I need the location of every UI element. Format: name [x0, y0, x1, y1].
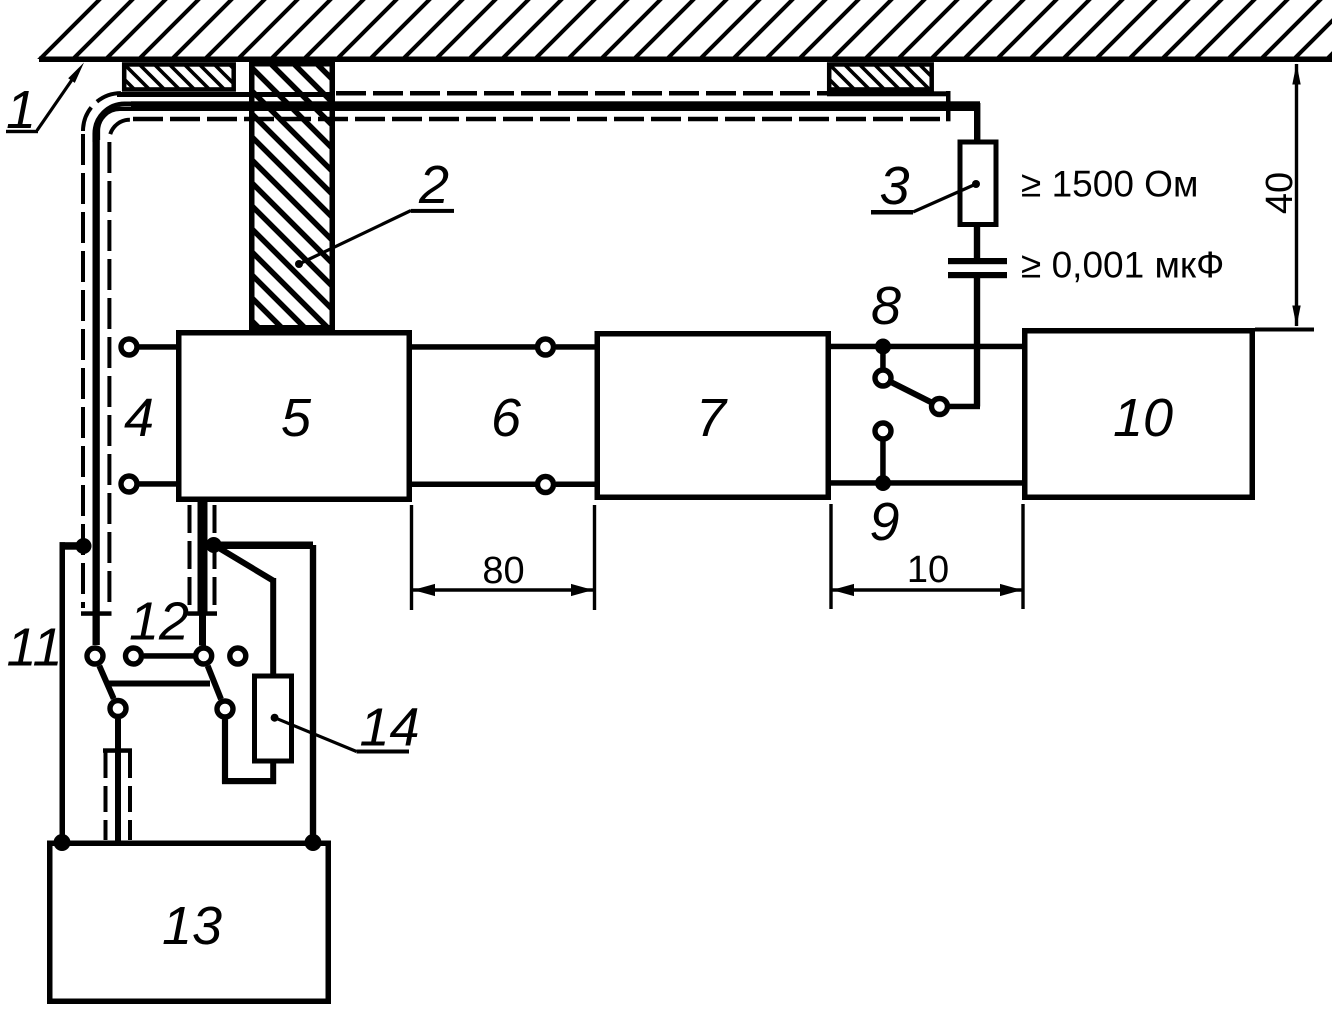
capacitor top plate	[948, 258, 1007, 264]
wire box5 to terminal lower	[411, 482, 536, 488]
svg-text:3: 3	[879, 156, 909, 216]
corner arc inner dashed sleeve	[109, 120, 130, 141]
box 13	[50, 843, 329, 1001]
svg-text:≥ 0,001 мкФ: ≥ 0,001 мкФ	[1021, 245, 1224, 286]
resistor 14	[255, 676, 292, 761]
sleeve right dashed vertical	[107, 142, 111, 602]
dimension 80 left arrow	[413, 584, 435, 596]
sleeve left dashed vertical	[81, 134, 85, 608]
sleeve below box5 left dashed	[188, 505, 192, 609]
sleeve top dashed line	[336, 91, 934, 96]
label 3	[871, 156, 913, 216]
diagonal wire to resistor 14	[214, 545, 273, 581]
corner arc inner wire	[98, 109, 138, 140]
svg-text:10: 10	[1113, 388, 1173, 448]
mounting block right	[829, 64, 932, 89]
wire resistor14 bottom horizontal	[222, 778, 276, 784]
ceiling line	[39, 57, 1332, 63]
wire to switch 12 right	[199, 614, 206, 646]
leader of label 2	[295, 211, 411, 269]
switch 11 blade	[99, 666, 113, 699]
wire switch 11 to box 13	[115, 719, 121, 841]
extension line from box10 top	[1255, 328, 1314, 332]
switch 8 moving contact circle	[932, 399, 948, 415]
dimension 10 extension left	[829, 504, 832, 609]
switch 9 upper contact circle	[875, 423, 891, 439]
resistor 3	[960, 142, 996, 225]
switch 11 bottom contact	[110, 701, 126, 717]
terminal 12 left circle	[126, 648, 142, 664]
switch 9 stem	[880, 441, 886, 484]
sleeve end bracket	[946, 91, 951, 121]
switch 8 fixed contact circle	[875, 370, 891, 386]
svg-text:8: 8	[871, 276, 901, 336]
dimension 80 extension right	[593, 505, 596, 610]
terminal 12 right circle	[230, 648, 246, 664]
switch 8 blade	[892, 382, 932, 402]
dimension 40 bottom arrow	[1292, 306, 1300, 327]
wire box7 to box10 top	[831, 344, 1022, 350]
box 7	[597, 334, 828, 498]
sleeve bottom dashed line	[133, 117, 946, 122]
wire pair below box 5	[198, 501, 208, 614]
lower sleeve right dashed	[128, 752, 132, 840]
box 10	[1025, 331, 1253, 498]
sleeve top end nub	[827, 91, 951, 96]
lower sleeve left dashed	[104, 752, 108, 840]
wire terminal to box 5 lower	[139, 481, 176, 487]
lower sleeve closure	[103, 748, 132, 753]
svg-text:11: 11	[6, 618, 62, 678]
leader of label 14	[271, 714, 357, 752]
terminal 6 upper circle	[538, 339, 554, 355]
svg-text:6: 6	[491, 388, 522, 448]
terminal 6 lower circle	[538, 477, 554, 493]
terminal 4 upper circle	[121, 339, 137, 355]
leader of label 3	[913, 180, 980, 212]
svg-text:14: 14	[359, 698, 419, 758]
switch 11 fixed contact	[87, 648, 103, 664]
switch 9 junction dot	[875, 475, 891, 491]
corner arc outer wire	[95, 104, 133, 142]
junction dot right bundle	[206, 537, 222, 553]
svg-text:5: 5	[281, 388, 312, 448]
label 14	[357, 698, 420, 758]
wire resistor 14 bottom	[270, 761, 276, 784]
sleeve below box5 closure	[188, 611, 218, 616]
dimension 10 right arrow	[1000, 584, 1022, 596]
wire pair vertical band left	[93, 134, 100, 645]
wire box7 to box10 bottom	[831, 480, 1022, 486]
wire solid top segment under blocks	[117, 92, 334, 97]
svg-text:80: 80	[482, 550, 524, 592]
switch 8 junction dot	[875, 339, 891, 355]
switch 12 fixed contact	[196, 648, 212, 664]
dimension 40 top arrow	[1292, 64, 1300, 85]
dimension 80 extension left	[410, 505, 413, 610]
wire pair horizontal band	[131, 101, 980, 111]
left vertical wire to box 13	[60, 542, 66, 842]
branch wire to right vertical	[214, 542, 313, 550]
wire terminal to box7 lower	[556, 482, 595, 488]
wire capacitor to switch 8	[974, 278, 980, 407]
corner arc outer dashed sleeve	[83, 93, 121, 131]
svg-text:13: 13	[162, 896, 222, 956]
right vertical wire to box 13	[310, 545, 316, 842]
branch wire to box 13 left	[60, 542, 85, 550]
svg-text:12: 12	[129, 592, 189, 652]
svg-text:2: 2	[418, 155, 449, 215]
wire terminal12 to switch top	[144, 653, 194, 659]
wire terminal to box 5 upper	[139, 344, 176, 350]
wire box5 to terminal upper	[411, 344, 536, 350]
svg-text:10: 10	[907, 549, 949, 591]
dimension 80 right arrow	[571, 584, 593, 596]
wire switch8 to capacitor branch	[948, 404, 980, 410]
svg-text:40: 40	[1259, 172, 1301, 214]
box 5	[179, 333, 410, 500]
junction dot box13 left	[54, 834, 71, 851]
leader arrow of label 1	[37, 63, 84, 131]
wire resistor to capacitor	[974, 224, 980, 258]
switch 12 bottom contact	[217, 701, 233, 717]
sleeve below box5 right dashed	[213, 505, 217, 609]
svg-text:≥ 1500 Ом: ≥ 1500 Ом	[1021, 164, 1198, 205]
svg-text:9: 9	[869, 492, 899, 552]
wire terminal to box7 upper	[556, 344, 595, 350]
junction dot box13 right	[305, 834, 322, 851]
label 2	[411, 155, 454, 215]
dimension 10 left arrow	[832, 584, 854, 596]
svg-text:4: 4	[124, 388, 154, 448]
sleeve bottom closure left bundle	[81, 611, 112, 616]
dimension 40 line	[1295, 64, 1298, 326]
svg-text:7: 7	[696, 388, 728, 448]
dimension 80 line	[413, 588, 593, 591]
wire up to switch bottom	[222, 720, 228, 784]
mounting block left	[124, 64, 234, 89]
junction dot on left bundle	[76, 538, 92, 554]
ceiling surface hatch	[36, 0, 1332, 59]
switch linkage bar	[108, 681, 210, 687]
dimension 10 line	[831, 588, 1023, 591]
wire down to resistor 14	[270, 578, 276, 674]
label 1	[6, 80, 38, 140]
capacitor bottom plate	[948, 272, 1007, 278]
dimension 10 extension right	[1021, 504, 1024, 609]
switch 8 stem	[880, 346, 886, 369]
terminal 4 lower circle	[121, 476, 137, 492]
wire bundle to resistor 3	[974, 103, 980, 141]
spacer column 2	[252, 64, 333, 328]
switch 12 blade	[208, 666, 221, 699]
